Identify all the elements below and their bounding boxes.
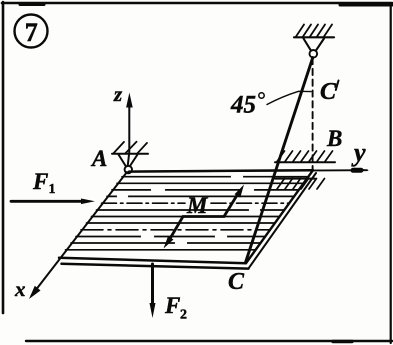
plate hatching	[66, 177, 308, 250]
plate right edge BC outer	[246, 170, 313, 263]
ceiling support hatch line	[294, 36, 334, 38]
wall at B upper hatch line	[275, 161, 335, 163]
svg-text:C: C	[320, 79, 337, 105]
F2 label	[164, 293, 187, 323]
svg-text:M: M	[186, 193, 209, 218]
y axis	[132, 168, 370, 173]
svg-text:x: x	[14, 277, 26, 301]
svg-text:45: 45	[230, 92, 256, 119]
45 degree leader line	[267, 91, 311, 104]
plate hatch dash-dot line 1	[102, 202, 289, 204]
ceiling support hatch strokes	[296, 25, 332, 37]
F1 label	[32, 169, 56, 197]
figure number circle 7	[15, 15, 48, 48]
plate bottom edge lower line	[62, 264, 249, 269]
force F1 arrow	[11, 199, 95, 205]
support A hatch strokes	[114, 142, 148, 154]
svg-text:2: 2	[180, 308, 187, 323]
svg-text:1: 1	[49, 182, 56, 197]
support A triangle	[119, 155, 138, 168]
plate hatch dash-dot line 2	[81, 229, 270, 231]
wall at B upper hatch strokes	[277, 151, 333, 162]
svg-text:F: F	[32, 169, 48, 194]
svg-text:F: F	[164, 293, 180, 318]
dashed vertical line C' to B	[312, 58, 314, 170]
z axis	[126, 93, 133, 167]
pin circle at C'	[310, 50, 318, 58]
pin circle at A	[125, 166, 132, 173]
svg-text:C: C	[228, 269, 245, 295]
svg-text:B: B	[326, 126, 342, 151]
force F2 arrow	[150, 264, 156, 318]
wall at B lower hatch strokes	[277, 179, 325, 190]
rod C'C	[246, 58, 313, 263]
C' label	[320, 79, 339, 105]
svg-text:z: z	[113, 82, 123, 106]
45 degree label	[230, 92, 264, 119]
plate right edge inner	[249, 173, 317, 268]
hatch line breaks	[118, 177, 259, 243]
support A hatch line	[112, 153, 148, 155]
plate bottom edge top line DC	[59, 258, 246, 263]
ceiling support triangle	[304, 39, 325, 52]
plate top edge AB	[129, 170, 313, 171]
svg-text:A: A	[90, 146, 107, 171]
x axis and plate left edge	[29, 172, 127, 299]
wall at B lower line	[275, 178, 315, 180]
svg-text:y: y	[351, 138, 366, 167]
svg-text:7: 7	[25, 18, 38, 47]
moment M couple arrow	[164, 185, 245, 249]
